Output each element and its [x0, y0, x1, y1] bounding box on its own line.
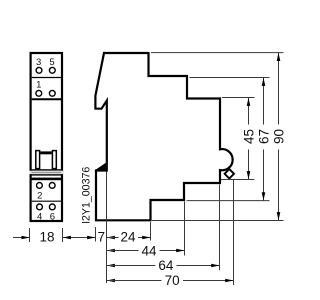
- side view body outline: [95, 53, 232, 220]
- terminal circle row3-left: [37, 183, 43, 189]
- dim 64 line with arrows: [107, 264, 115, 268]
- switch left post: [36, 151, 40, 169]
- hatched band light core: [32, 172, 62, 173]
- svg-text:3: 3: [36, 57, 41, 68]
- svg-text:6: 6: [50, 212, 55, 223]
- svg-text:64: 64: [158, 258, 174, 273]
- svg-text:I2Y1_00376: I2Y1_00376: [81, 167, 93, 224]
- dim 90 vertical line: [278, 53, 280, 125]
- extension line x=150.5: [150, 222, 152, 241]
- thick housing line: [30, 178, 64, 181]
- svg-text:67: 67: [256, 129, 271, 144]
- extension line x=184: [184, 202, 186, 256]
- extension line bottom 90: [152, 220, 284, 222]
- svg-text:2: 2: [37, 191, 42, 202]
- hatched band gray fill: [30, 171, 64, 175]
- switch crossbar: [40, 151, 51, 154]
- terminal circle row2-right: [49, 90, 55, 96]
- dim 18 left arrow: [13, 237, 29, 239]
- extension line x=106.8 (rail face): [106, 172, 108, 284]
- terminal circle row3-right: [49, 183, 55, 189]
- extension line top 67: [190, 77, 270, 79]
- svg-text:24: 24: [120, 230, 136, 245]
- extension line top 90: [151, 52, 284, 54]
- dim 44 line with arrows: [107, 249, 115, 253]
- separator line 2: [32, 98, 62, 100]
- dim 45 vertical line: [248, 98, 250, 125]
- dim 7 left tick: [95, 227, 97, 242]
- terminal circle row2-left: [36, 90, 42, 96]
- dim line between 18 and 7: [63, 237, 96, 239]
- dim 70 line with arrows: [107, 279, 115, 283]
- svg-text:44: 44: [141, 243, 157, 258]
- front view outline: [31, 53, 62, 221]
- svg-text:5: 5: [49, 57, 54, 68]
- terminal circle top-left: [36, 67, 42, 73]
- dim 24 line with arrows: [107, 236, 115, 240]
- extension line x=233.2: [233, 180, 235, 286]
- extension line bottom 67: [187, 200, 270, 202]
- svg-text:18: 18: [39, 230, 54, 245]
- hatched band bottom line: [30, 174, 64, 175]
- dim 18 left tick: [29, 228, 31, 242]
- rail clip wedge (filled): [96, 163, 107, 171]
- svg-text:4: 4: [37, 212, 42, 223]
- release knob diamond: [225, 169, 234, 178]
- switch right post: [52, 151, 56, 169]
- svg-text:7: 7: [97, 230, 105, 245]
- terminal circle row4-right: [49, 204, 55, 210]
- extension line top 45: [222, 97, 255, 99]
- terminal circle row4-left: [37, 204, 43, 210]
- terminal circle top-right: [49, 67, 55, 73]
- extension line bottom 45: [221, 179, 255, 181]
- svg-text:45: 45: [242, 129, 257, 144]
- separator line 3: [32, 200, 62, 202]
- dim 18 right tick: [62, 228, 64, 242]
- svg-text:1: 1: [36, 80, 41, 91]
- svg-text:90: 90: [272, 129, 287, 144]
- hatched band top line: [30, 169, 64, 171]
- svg-text:70: 70: [165, 273, 180, 288]
- dim 67 vertical line: [263, 78, 265, 125]
- extension line x=219.8: [219, 185, 221, 271]
- separator line 1: [32, 77, 62, 79]
